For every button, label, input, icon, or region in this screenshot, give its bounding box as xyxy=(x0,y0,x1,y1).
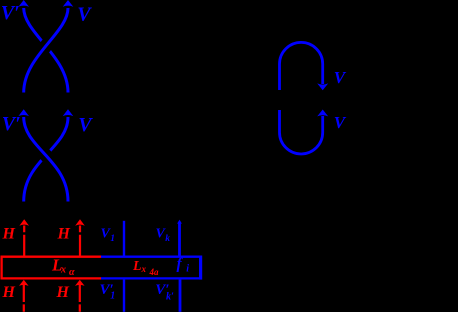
crossing 1 left arrowhead (up) xyxy=(18,0,29,7)
svg-text:1: 1 xyxy=(110,290,115,301)
svg-text:V: V xyxy=(78,114,93,136)
svg-text:α: α xyxy=(69,267,75,278)
svg-text:x: x xyxy=(60,264,66,275)
svg-text:x: x xyxy=(141,264,147,274)
svg-text:V: V xyxy=(77,3,92,25)
svg-text:H: H xyxy=(2,226,16,243)
label L_{x_a} (red, in box) xyxy=(51,256,75,278)
svg-text:H: H xyxy=(56,284,70,301)
svg-text:k′: k′ xyxy=(166,291,174,302)
svg-text:V: V xyxy=(334,113,347,132)
braiding crossing 2 over strand: top-left to bottom-right xyxy=(24,117,68,202)
box red portion (left half of L-box) xyxy=(2,257,101,279)
strand V'_k below box (blue) xyxy=(179,280,182,312)
svg-text:k: k xyxy=(165,234,170,244)
label V_1 (above box) xyxy=(101,226,116,244)
svg-text:i: i xyxy=(186,264,189,275)
svg-text:1: 1 xyxy=(110,234,115,244)
H strand above box, left (red, dashed with up arrow) xyxy=(19,219,29,256)
svg-text:4a: 4a xyxy=(149,267,160,277)
svg-text:H: H xyxy=(2,284,16,301)
label L_{x_{4a}} (red, in box) xyxy=(132,259,159,277)
H strand below box, left (red, up arrow into box, dashed tail) xyxy=(19,280,29,312)
label V'_1 (below box) xyxy=(100,282,116,302)
box blue portion (right half of L-box) xyxy=(101,256,201,280)
strand V_k above box (blue, small arrow tip) xyxy=(177,220,182,256)
svg-text:V: V xyxy=(334,68,347,87)
crossing 2 left arrowhead (up) xyxy=(18,109,29,116)
braiding crossing 1 (top left), under strand: bottom-right to top-left xyxy=(24,8,68,93)
H strand above box, right (red, dashed with up arrow) xyxy=(75,219,85,256)
crossing 2 eraser gap for under strand xyxy=(24,117,68,202)
braiding crossing 1 over strand: bottom-left to top-right xyxy=(24,8,68,93)
cup (coevaluation arc, right side) xyxy=(280,110,323,154)
svg-text:H: H xyxy=(57,226,71,243)
strand V'_1 below box (blue) xyxy=(123,280,125,312)
cap (evaluation arc, right side) xyxy=(280,42,323,90)
H strand below box, right (red, up arrow into box, dashed tail) xyxy=(75,280,85,312)
label V'_k (below box) xyxy=(155,282,174,303)
cap arrowhead (down) xyxy=(317,83,328,90)
braiding crossing 2 (inverse), under strand: top-right to bottom-left xyxy=(24,117,68,202)
strand V_1 above box (blue) xyxy=(123,221,125,256)
crossing 1 right arrowhead (up) xyxy=(63,0,74,7)
svg-text:V′: V′ xyxy=(2,113,21,135)
label V_k (above box) xyxy=(156,226,171,244)
svg-text:L: L xyxy=(132,259,142,274)
crossing 1 eraser gap for under strand xyxy=(24,8,68,93)
crossing 2 right arrowhead (up) xyxy=(63,109,74,116)
label f_i (blue, in box) xyxy=(177,256,190,275)
svg-text:V′: V′ xyxy=(1,2,20,24)
cup arrowhead (up) xyxy=(317,110,328,117)
